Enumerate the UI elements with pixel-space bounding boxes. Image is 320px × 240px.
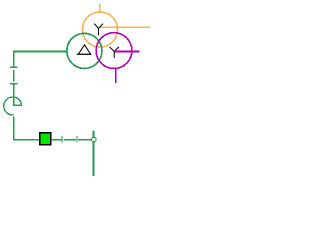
wire green stub below switch: [13, 116, 15, 140]
winding W2 delta symbol: [77, 45, 92, 55]
tick terminator T3: [61, 136, 63, 142]
wire green vertical left, middle segment: [13, 70, 15, 82]
wire green horizontal from W2 to left: [13, 51, 67, 53]
wire orange branch right: [99, 26, 150, 28]
circuit breaker (closed, green square): [40, 133, 51, 145]
winding W1 wye symbol: [94, 24, 103, 36]
switch / earthing-coil symbol: open circle arc: [4, 97, 22, 115]
wire breaker to T3: [52, 139, 62, 141]
wire T3 to T4: [63, 139, 76, 141]
transformer winding W2 (green, delta): [67, 33, 102, 68]
wire magenta stub down: [115, 68, 117, 83]
winding W3 wye symbol: [110, 47, 119, 58]
node connection point: [92, 137, 97, 142]
switch / earthing-coil symbol: inner L: [13, 104, 22, 106]
tick terminator T4: [76, 136, 78, 142]
wire green vertical left, lower segment: [13, 84, 15, 106]
tick terminator T2: [10, 83, 18, 85]
wire green vertical left, upper segment: [13, 52, 15, 68]
wire magenta branch right: [115, 51, 140, 53]
tick terminator T1: [10, 66, 18, 68]
transformer winding W1 (orange, wye): [82, 12, 117, 47]
wire orange top stub: [99, 4, 101, 12]
wire green busbar vertical right: [93, 130, 95, 176]
wire T4 to node: [78, 139, 91, 141]
wire green bottom horizontal to breaker: [14, 139, 40, 141]
transformer winding W3 (magenta, wye): [96, 33, 132, 69]
